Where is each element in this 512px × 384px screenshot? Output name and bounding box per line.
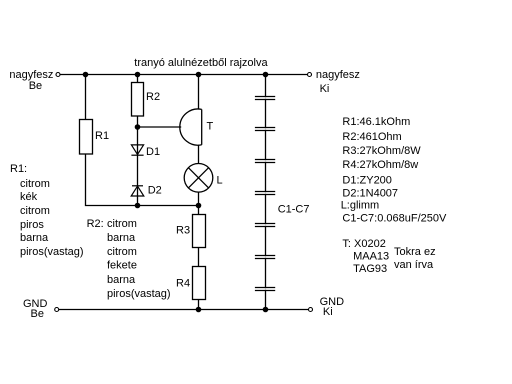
capacitor C5	[254, 224, 277, 227]
svg-text:kék: kék	[20, 191, 38, 203]
capacitor C7	[254, 288, 277, 291]
resistor R2	[132, 83, 161, 117]
capacitor C1	[254, 97, 277, 100]
svg-text:T: T	[207, 121, 214, 133]
wire base to transistor	[138, 126, 182, 128]
svg-text:Be: Be	[31, 308, 44, 320]
capacitor C4	[254, 192, 277, 195]
svg-text:D1: D1	[146, 146, 160, 158]
svg-text:R1:46.1kOhm: R1:46.1kOhm	[342, 116, 410, 128]
svg-text:citrom: citrom	[20, 205, 50, 217]
svg-text:R4:27kOhm/8w: R4:27kOhm/8w	[342, 159, 418, 171]
resistor R3	[176, 215, 206, 248]
transistor T	[180, 109, 202, 145]
svg-text:R2: R2	[146, 91, 160, 103]
lamp L	[184, 164, 213, 193]
svg-text:barna: barna	[107, 232, 136, 244]
svg-text:T: X0202: T: X0202	[342, 238, 385, 250]
node bottom caps	[263, 307, 269, 313]
terminal nagyfesz Ki	[308, 73, 312, 77]
label R1 colors	[10, 163, 84, 258]
svg-text:TAG93: TAG93	[353, 263, 387, 275]
svg-text:R3: R3	[176, 225, 190, 237]
capacitor C6	[254, 256, 277, 259]
resistor R4	[176, 267, 206, 300]
label component values	[341, 116, 447, 225]
svg-text:citrom: citrom	[107, 218, 137, 230]
svg-text:L: L	[217, 175, 223, 187]
svg-text:C1-C7:0.068uF/250V: C1-C7:0.068uF/250V	[342, 213, 447, 225]
wire collector	[198, 75, 200, 110]
capacitor C2	[254, 128, 277, 131]
svg-text:van írva: van írva	[394, 259, 434, 271]
wire emitter to lamp	[198, 145, 200, 164]
svg-text:tranyó alulnézetből rajzolva: tranyó alulnézetből rajzolva	[134, 57, 268, 69]
capacitor C3	[254, 160, 277, 163]
svg-text:D2:1N4007: D2:1N4007	[342, 188, 398, 200]
node lamp bottom	[196, 203, 202, 209]
node top collector	[196, 72, 202, 78]
node top R1	[83, 72, 89, 78]
svg-text:R4: R4	[176, 278, 190, 290]
svg-text:Tokra ez: Tokra ez	[394, 246, 436, 258]
terminal nagyfesz Be	[56, 73, 60, 77]
svg-text:Be: Be	[29, 80, 42, 92]
diode D2	[131, 186, 144, 196]
svg-text:R2:461Ohm: R2:461Ohm	[342, 131, 401, 143]
svg-text:piros(vastag): piros(vastag)	[20, 246, 84, 258]
wire R4 to bottom rail	[198, 300, 200, 310]
svg-text:barna: barna	[20, 232, 49, 244]
node top R2	[135, 72, 141, 78]
svg-text:Ki: Ki	[320, 83, 330, 95]
svg-text:R2:: R2:	[87, 218, 104, 230]
wire top rail	[60, 74, 308, 76]
wire capacitor chain	[265, 75, 267, 310]
node top caps	[263, 72, 269, 78]
wire R2 bottom through D1 D2 to mid rail	[137, 116, 139, 206]
label transistor type	[342, 238, 435, 275]
svg-text:Ki: Ki	[323, 306, 333, 318]
svg-text:R3:27kOhm/8W: R3:27kOhm/8W	[342, 145, 421, 157]
node bottom R4	[196, 307, 202, 313]
svg-text:barna: barna	[107, 274, 136, 286]
svg-text:R1:: R1:	[10, 163, 27, 175]
node base	[135, 124, 141, 130]
wire R2 top	[137, 75, 139, 83]
svg-text:piros: piros	[20, 219, 44, 231]
wire R3 to R4	[198, 248, 200, 267]
svg-text:MAA13: MAA13	[353, 251, 389, 263]
svg-text:citrom: citrom	[107, 246, 137, 258]
wire lamp to mid rail	[198, 192, 200, 205]
terminal GND Be	[55, 308, 59, 312]
node diode bottom	[135, 203, 141, 209]
svg-text:nagyfesz: nagyfesz	[316, 69, 360, 81]
svg-text:R1: R1	[95, 130, 109, 142]
diode D1	[131, 145, 143, 155]
wire mid rail to R3	[198, 206, 200, 215]
wire R1 bottom to mid rail	[86, 154, 199, 206]
wire bottom rail	[59, 309, 309, 311]
node dots	[83, 72, 269, 313]
label R2 colors	[87, 218, 171, 300]
wire R1 top	[85, 75, 87, 120]
svg-text:D2: D2	[148, 185, 162, 197]
svg-text:fekete: fekete	[107, 260, 137, 272]
svg-text:D1:ZY200: D1:ZY200	[342, 175, 392, 187]
svg-text:L:glimm: L:glimm	[341, 200, 380, 212]
svg-text:piros(vastag): piros(vastag)	[107, 288, 171, 300]
terminal GND Ki	[309, 308, 313, 312]
svg-text:C1-C7: C1-C7	[278, 204, 310, 216]
svg-text:citrom: citrom	[20, 178, 50, 190]
resistor R1	[80, 120, 110, 155]
